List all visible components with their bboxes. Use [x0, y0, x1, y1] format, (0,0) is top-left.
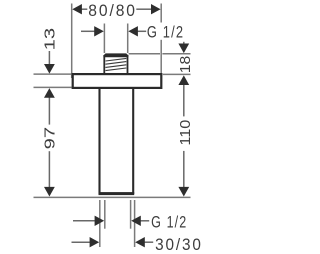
svg-text:G 1/2: G 1/2 [147, 24, 184, 42]
svg-text:G 1/2: G 1/2 [151, 213, 187, 231]
svg-text:30/30: 30/30 [155, 236, 203, 254]
svg-text:97: 97 [42, 127, 58, 150]
svg-text:110: 110 [178, 120, 194, 146]
svg-text:80/80: 80/80 [88, 2, 137, 20]
svg-text:18: 18 [178, 56, 194, 74]
svg-text:13: 13 [42, 28, 58, 51]
